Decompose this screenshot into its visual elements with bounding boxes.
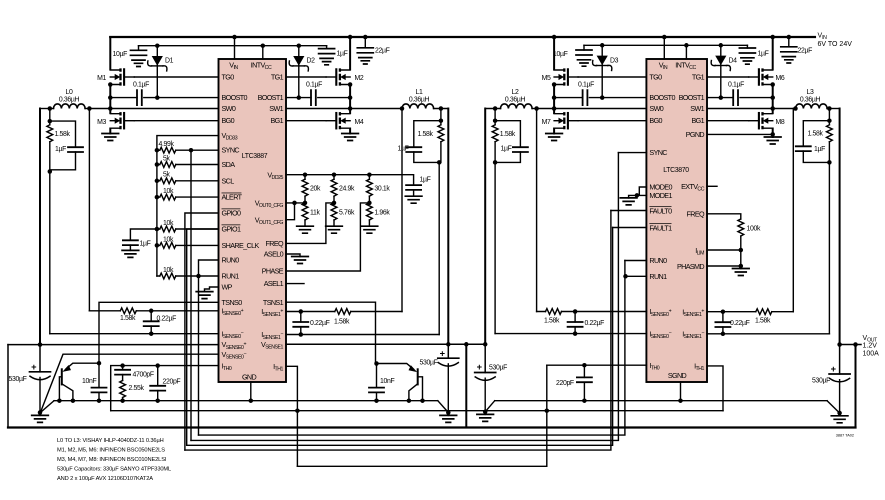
wire M6 drain drop — [772, 37, 774, 69]
U2 left pin labels — [649, 72, 675, 371]
transistor M4 — [326, 112, 364, 129]
capacitor 530uF phase1 — [420, 344, 459, 412]
wire M2 drain drop — [349, 37, 351, 69]
resistor 1.58k ISENSE0 — [120, 308, 136, 322]
node dots top rails — [232, 35, 237, 40]
wire SW1 line right — [707, 108, 796, 110]
wire GPIO0 drop — [185, 213, 219, 450]
svg-text:0.22µF: 0.22µF — [585, 320, 605, 327]
ground 530uF phase3 — [831, 413, 848, 423]
capacitor 1uF intvcc right — [739, 45, 768, 64]
svg-text:MODE1: MODE1 — [649, 191, 672, 200]
capacitor 0.1uF boost0 right — [578, 82, 594, 106]
wire BOOST0 line right — [554, 97, 646, 99]
capacitor 220pF right — [556, 365, 592, 401]
wire INTVCC pin drop — [262, 46, 264, 59]
wire L2 sense RC top — [495, 109, 520, 148]
wire BG0 right — [578, 120, 646, 122]
wire SGND bus left diagonal right — [438, 401, 449, 413]
ground PHASMD — [733, 269, 750, 276]
wire ITH1 drop — [286, 366, 297, 466]
wire M6/M8 SW vertical — [772, 85, 774, 114]
resistor 10k SHARE_CLK pullup — [157, 236, 219, 248]
wire SGND bus right — [495, 400, 827, 402]
wire M3 source to ground — [109, 129, 111, 134]
wire ISENSE1- drop right — [828, 162, 830, 333]
svg-text:+: + — [477, 362, 483, 372]
wire VSENSE0+ line — [8, 344, 219, 346]
svg-text:ASEL1: ASEL1 — [264, 279, 284, 288]
svg-text:BG1: BG1 — [691, 116, 704, 125]
capacitor 10nF phase0 — [82, 363, 107, 401]
svg-text:10k: 10k — [163, 267, 174, 274]
svg-text:10nF: 10nF — [380, 378, 394, 385]
svg-text:1.58k: 1.58k — [334, 319, 350, 326]
svg-text:TSNS0: TSNS0 — [222, 298, 243, 307]
svg-text:D4: D4 — [729, 58, 738, 65]
transistor Q1 temp sense phase0 — [59, 363, 99, 401]
svg-text:BOOST1: BOOST1 — [258, 93, 284, 102]
wire VSENSE1 line — [286, 343, 485, 345]
resistor 10k RUN pullup — [157, 267, 219, 279]
svg-text:0.36µH: 0.36µH — [59, 97, 80, 104]
svg-text:220pF: 220pF — [163, 379, 181, 386]
svg-text:GPIO0: GPIO0 — [222, 209, 241, 218]
wire VOUT bottom bus — [8, 426, 856, 428]
resistor 1.58k ISENSE1 right — [755, 309, 772, 325]
svg-text:WP: WP — [222, 283, 233, 292]
wire VDD25 line — [286, 175, 414, 185]
diode D3 — [593, 45, 619, 97]
svg-text:D2: D2 — [307, 58, 316, 65]
svg-text:4700pF: 4700pF — [133, 372, 154, 379]
capacitor 530uF phase0 — [9, 345, 51, 413]
wire ISENSE0+ right line — [537, 311, 647, 313]
wire M4 source to ground — [349, 129, 351, 134]
diode D1 — [148, 46, 174, 98]
svg-text:FREQ: FREQ — [266, 239, 285, 248]
svg-text:0.22µF: 0.22µF — [157, 316, 177, 323]
wire VOUT phase3 drop — [839, 109, 841, 345]
svg-text:M3, M4, M7, M8: INFINEON BSC01: M3, M4, M7, M8: INFINEON BSC010NE2LSI — [57, 457, 167, 463]
svg-text:6V TO 24V: 6V TO 24V — [818, 41, 853, 48]
svg-text:M6: M6 — [776, 75, 785, 82]
resistor 30.1k — [367, 175, 391, 203]
wire M5/M7 SW vertical — [553, 85, 555, 114]
svg-text:0.1µF: 0.1µF — [306, 82, 322, 89]
capacitor 10nF phase1 — [369, 364, 394, 401]
transistor M8 — [749, 112, 785, 129]
node VIN label — [818, 33, 853, 49]
svg-text:GND: GND — [242, 373, 257, 382]
wire M1/M3 SW vertical — [109, 85, 111, 114]
svg-text:LTC3870: LTC3870 — [663, 167, 689, 174]
svg-text:D1: D1 — [165, 58, 174, 65]
wire VOUT phase2 drop — [484, 109, 486, 345]
svg-text:1.58k: 1.58k — [755, 318, 771, 325]
capacitor 0.1uF boost1 right — [728, 82, 744, 106]
svg-text:1µF: 1µF — [501, 146, 512, 153]
wire GPIO1-FAULT1 bus — [187, 228, 613, 446]
wire EXTVCC stub — [707, 185, 717, 187]
svg-text:+: + — [31, 362, 37, 372]
wire SGND pin drop — [680, 382, 682, 401]
wire INTVCC rail right — [584, 44, 747, 46]
wire L3 sense RC top — [803, 109, 829, 147]
transistor M1 — [97, 68, 134, 85]
wire VOUT1_CFG link — [286, 203, 295, 220]
capacitor 1uF L0 — [50, 146, 83, 170]
wire RUN0/RUN1 drop — [199, 260, 219, 435]
wire ISENSE1+ drop right — [793, 109, 795, 312]
resistor 5.76k — [326, 203, 355, 233]
wire ISENSE0+ line — [89, 310, 218, 312]
svg-text:3887 TA02: 3887 TA02 — [836, 434, 854, 438]
svg-text:TG1: TG1 — [271, 72, 284, 81]
svg-text:FAULT0: FAULT0 — [649, 206, 672, 215]
wire ISENSE0- drop — [49, 172, 51, 334]
svg-text:M7: M7 — [542, 119, 551, 126]
wire SW0 line right — [537, 108, 647, 110]
resistor 5k SDA pullup — [157, 155, 219, 167]
wire L1 sense RC top — [414, 109, 441, 148]
wire TSNS0 — [99, 302, 219, 363]
svg-text:20k: 20k — [310, 186, 321, 193]
wire SYNC bus — [191, 153, 618, 441]
wire BOOST0 line — [110, 97, 218, 99]
svg-text:1µF: 1µF — [758, 51, 769, 58]
resistor 10k GPIO1 pullup — [157, 220, 219, 232]
capacitor 220pF phase0 — [150, 366, 180, 401]
resistor 1.96k — [361, 203, 390, 233]
node VOUT label — [863, 335, 880, 357]
wire ITH bus — [111, 410, 723, 412]
resistor 4.99k SYNC pullup — [157, 141, 219, 153]
wire BOOST1 line right — [707, 97, 773, 99]
svg-text:BG1: BG1 — [270, 116, 283, 125]
capacitor 1uF VDD33 — [122, 229, 157, 257]
transistor M5 — [542, 68, 578, 85]
svg-text:30.1k: 30.1k — [374, 186, 390, 193]
resistor 10k ALERT pullup — [157, 188, 219, 200]
wire VOUT phase0 drop — [39, 109, 41, 345]
svg-text:1.58k: 1.58k — [418, 131, 434, 138]
svg-text:10k: 10k — [163, 236, 174, 243]
svg-text:M2: M2 — [355, 75, 364, 82]
svg-text:BOOST1: BOOST1 — [679, 93, 705, 102]
wire VIN pin drop — [234, 37, 236, 59]
node dots ITH0 line — [120, 363, 125, 368]
resistor 2.55k — [120, 375, 145, 401]
svg-text:10nF: 10nF — [82, 378, 96, 385]
svg-text:0.36µH: 0.36µH — [505, 97, 526, 104]
wire TG0 right — [578, 76, 646, 78]
svg-text:1.58k: 1.58k — [544, 317, 560, 324]
wire ISENSE0- drop right — [494, 162, 496, 333]
svg-text:RUN1: RUN1 — [649, 272, 667, 281]
node dots sense networks — [149, 309, 154, 314]
svg-text:1µF: 1µF — [140, 241, 151, 248]
wire ISENSE1+ right line — [707, 311, 793, 313]
resistor 1.58k ISENSE0 right — [544, 309, 562, 325]
capacitor 10uF right — [553, 45, 592, 66]
svg-text:RUN0: RUN0 — [649, 256, 667, 265]
svg-text:1.58k: 1.58k — [500, 131, 516, 138]
wire ISENSE1- drop left — [438, 162, 440, 334]
svg-text:5.76k: 5.76k — [339, 210, 355, 217]
wire SGND bus left diagonal — [40, 401, 54, 413]
svg-text:SW1: SW1 — [269, 104, 283, 113]
capacitor 4700pF — [115, 366, 154, 379]
node dots ground junctions — [38, 410, 43, 415]
U2 right pin labels — [677, 72, 705, 372]
wire RUN1 right pin — [625, 275, 647, 277]
svg-text:0.36µH: 0.36µH — [409, 97, 430, 104]
wire VOUT0_CFG line — [286, 202, 305, 204]
resistor 1.58k L3 — [808, 121, 833, 163]
inductor L3 — [796, 89, 840, 109]
wire RUN0 right pin — [625, 260, 647, 262]
resistor 1.58k L0 — [47, 121, 71, 171]
svg-text:SW1: SW1 — [690, 104, 704, 113]
ground below M4 — [342, 134, 359, 141]
svg-text:L3: L3 — [807, 89, 814, 96]
wire ASEL0 to ground — [286, 254, 300, 257]
capacitor 22uF left — [357, 37, 389, 64]
wire VSENSE0- line with diagonal to ground — [40, 354, 218, 412]
wire SYNC drop — [190, 150, 192, 440]
svg-text:0.22µF: 0.22µF — [310, 320, 330, 327]
svg-text:1.58k: 1.58k — [55, 131, 71, 138]
wire TG1 right — [707, 76, 749, 78]
wire VIN top rail — [110, 36, 815, 38]
svg-text:24.9k: 24.9k — [339, 186, 355, 193]
wire ITH0 line — [111, 366, 219, 411]
wire INTVCC pin drop right — [685, 45, 687, 59]
svg-text:ASEL0: ASEL0 — [264, 250, 284, 259]
svg-text:530µF: 530µF — [489, 365, 507, 372]
diode D4 — [711, 45, 737, 97]
svg-text:L0: L0 — [66, 89, 73, 96]
wire ISENSE0- right line — [495, 333, 646, 335]
svg-text:TSNS1: TSNS1 — [263, 298, 284, 307]
svg-text:530µF: 530µF — [9, 376, 27, 383]
ground 530uF phase0 — [32, 413, 49, 423]
wire VDD33 rail — [157, 136, 219, 276]
svg-text:1µF: 1µF — [814, 146, 825, 153]
wire VOUT phase1 drop — [447, 109, 449, 345]
ground ASEL0 — [292, 257, 309, 264]
capacitor 1uF L2 — [495, 146, 528, 163]
wire ISENSE1- right line — [707, 333, 829, 335]
capacitor 1uF intvcc left — [319, 46, 348, 65]
wire GND pin drop — [250, 382, 252, 401]
svg-text:1µF: 1µF — [420, 177, 431, 184]
resistor 1.58k L1 — [418, 121, 444, 163]
svg-text:BG0: BG0 — [222, 116, 235, 125]
svg-text:SDA: SDA — [222, 160, 236, 169]
svg-text:1.58k: 1.58k — [120, 315, 136, 322]
svg-text:SYNC: SYNC — [222, 146, 240, 155]
node dots boost lines — [108, 95, 113, 100]
svg-text:M3: M3 — [97, 119, 106, 126]
wire ISENSE0+ drop — [88, 109, 90, 311]
svg-text:FAULT1: FAULT1 — [649, 223, 672, 232]
transistor M7 — [542, 112, 578, 129]
svg-text:SHARE_CLK: SHARE_CLK — [222, 241, 260, 250]
svg-text:M1: M1 — [97, 75, 106, 82]
svg-text:SW0: SW0 — [222, 104, 236, 113]
wire BG1 right — [707, 120, 749, 122]
wire SW1 line — [286, 108, 402, 110]
svg-text:TG0: TG0 — [649, 72, 662, 81]
node dots VOUT rail — [38, 342, 43, 347]
capacitor 0.22uF ISENSE1 right — [715, 312, 749, 334]
capacitor 0.22uF ISENSE1 — [293, 312, 329, 335]
svg-text:22µF: 22µF — [375, 48, 390, 55]
svg-text:22µF: 22µF — [798, 48, 813, 55]
wire BG0 — [134, 120, 218, 122]
wire FREQ from divider — [286, 203, 334, 244]
node dots VDD33 rail — [155, 148, 160, 153]
op-amp U2 LTC3870 — [646, 59, 707, 382]
svg-text:TG1: TG1 — [692, 72, 705, 81]
svg-text:5k: 5k — [163, 172, 170, 179]
svg-text:530µF: 530µF — [420, 360, 438, 367]
svg-text:BOOST0: BOOST0 — [649, 93, 675, 102]
svg-text:1.96k: 1.96k — [374, 210, 390, 217]
svg-text:100A: 100A — [863, 350, 880, 357]
wire SGND bus right diagonal right — [827, 401, 840, 413]
svg-text:0.1µF: 0.1µF — [578, 82, 594, 89]
svg-text:100k: 100k — [747, 226, 761, 233]
wire PHASE from divider — [286, 203, 369, 271]
wire SYNC right pin — [618, 152, 646, 154]
svg-text:RUN0: RUN0 — [222, 256, 240, 265]
capacitor 1uF L1 — [398, 146, 440, 163]
inductor L1 — [402, 89, 448, 109]
svg-text:M5: M5 — [542, 75, 551, 82]
capacitor 530uF phase3 — [812, 345, 850, 414]
node dots SW lines — [108, 106, 113, 111]
inductor L2 — [485, 89, 536, 109]
wire VOUT stub right — [840, 344, 861, 346]
svg-text:0.36µH: 0.36µH — [800, 97, 821, 104]
wire L0 sense RC top — [50, 109, 76, 148]
note text block — [57, 438, 171, 482]
capacitor 0.22uF ISENSE0 — [144, 311, 176, 334]
svg-text:GPIO1: GPIO1 — [222, 225, 241, 234]
wire ITH0 right — [547, 364, 647, 366]
capacitor 0.22uF ISENSE0 right — [568, 312, 605, 334]
ground MODE — [620, 198, 637, 205]
wire ILIM — [707, 249, 741, 251]
svg-text:PHASMD: PHASMD — [677, 262, 704, 271]
svg-text:1.58k: 1.58k — [808, 130, 824, 137]
svg-text:11k: 11k — [310, 210, 320, 217]
wire GPIO1 drop — [187, 229, 219, 445]
wire SW0 line — [89, 108, 218, 110]
capacitor 530uF phase2 — [475, 344, 507, 412]
resistor 11k — [297, 203, 321, 233]
U1 right pin labels — [255, 72, 284, 372]
wire RUN bus — [199, 261, 625, 436]
ground below M8 — [764, 137, 781, 144]
svg-text:10µF: 10µF — [113, 51, 128, 58]
node dots TSNS nets — [97, 361, 102, 366]
svg-text:VIN: VIN — [818, 33, 828, 42]
wire ITH tie low loop — [297, 365, 546, 466]
node dots RC networks — [48, 119, 53, 124]
svg-text:10k: 10k — [163, 220, 174, 227]
svg-text:M1, M2, M5, M6: INFINEON BSC05: M1, M2, M5, M6: INFINEON BSC050NE2LS — [57, 448, 165, 454]
wire TG1 — [286, 76, 326, 78]
svg-text:10k: 10k — [163, 188, 174, 195]
capacitor 0.1uF boost0 — [133, 82, 149, 106]
wire M1 drain drop from VIN rail — [109, 37, 111, 69]
transistor M3 — [97, 112, 134, 129]
wire TSNS1 — [286, 302, 376, 363]
inductor L0 — [40, 89, 89, 109]
svg-text:5k: 5k — [163, 155, 170, 162]
wire M8 source to ground — [772, 129, 774, 138]
resistor 1.58k ISENSE1 — [334, 309, 351, 326]
wire ISENSE0+ drop right — [536, 109, 538, 312]
transistor M2 — [326, 68, 364, 85]
wire ITH1 right — [707, 366, 723, 411]
wire VOUT right edge — [855, 345, 857, 428]
wire ISENSE1- line — [286, 334, 439, 336]
svg-text:M4: M4 — [355, 119, 364, 126]
wire TG0 — [134, 76, 218, 78]
svg-text:SGND: SGND — [668, 371, 687, 380]
svg-text:1µF: 1µF — [398, 146, 409, 153]
svg-text:FREQ: FREQ — [687, 209, 706, 218]
capacitor 1uF L3 — [796, 146, 830, 162]
svg-text:M8: M8 — [776, 119, 785, 126]
wire ISENSE1+ drop left — [401, 109, 403, 312]
U1 left pin labels — [222, 72, 260, 372]
resistor 100k — [738, 219, 761, 250]
svg-text:PHASE: PHASE — [262, 267, 284, 276]
wire PGND — [707, 133, 773, 135]
wire FAULT0 right pin — [611, 210, 647, 212]
wire FREQ right — [707, 214, 741, 219]
svg-text:L2: L2 — [512, 89, 519, 96]
svg-text:LTC3887: LTC3887 — [242, 153, 268, 160]
svg-text:530µF Capacitors: 330µF SANYO: 530µF Capacitors: 330µF SANYO 4TPF330ML — [57, 467, 171, 473]
wire INTVCC rail left — [139, 45, 327, 47]
svg-text:L0 TO L3: VISHAY IHLP-4040DZ-1: L0 TO L3: VISHAY IHLP-4040DZ-11 0.36µH — [57, 438, 164, 444]
svg-text:0.1µF: 0.1µF — [133, 82, 149, 89]
svg-text:530µF: 530µF — [812, 378, 830, 385]
svg-text:1µF: 1µF — [55, 146, 66, 153]
wire SGND bus right diagonal left — [485, 401, 495, 412]
svg-text:0.1µF: 0.1µF — [728, 82, 744, 89]
wire VIN pin drop right — [663, 37, 665, 59]
resistor 1.58k L2 — [492, 121, 516, 163]
capacitor 1uF VDD25 — [405, 177, 430, 204]
resistor 24.9k — [331, 175, 355, 203]
capacitor 22uF right — [781, 37, 812, 63]
wire BG1 — [286, 120, 326, 122]
transistor Q2 temp sense phase1 — [377, 364, 423, 401]
svg-text:0.22µF: 0.22µF — [730, 320, 750, 327]
ground below M3 — [102, 134, 119, 141]
wire ISENSE0- line — [50, 333, 219, 335]
resistor 20k — [302, 175, 321, 203]
wire ISENSE1+ line — [286, 311, 402, 313]
